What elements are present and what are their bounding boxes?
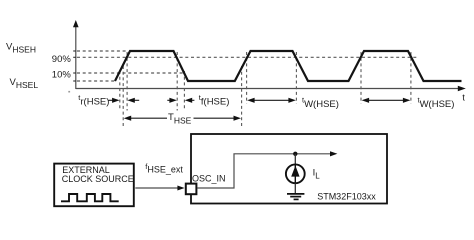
wire OSC_IN to internal node (197, 154, 332, 188)
ground (287, 194, 304, 200)
dashed level line 10% (77, 72, 185, 74)
svg-text:10%: 10% (52, 69, 72, 80)
current source IL (286, 164, 305, 183)
y-axis (voltage axis) (73, 20, 79, 89)
tr(HSE) annotation arrows (109, 98, 140, 103)
tf(HSE) annotation arrows (167, 98, 194, 103)
x-axis (time axis) (76, 86, 466, 92)
tW(HSE) annotation arrows pulse 2 (247, 98, 296, 103)
dashed marker rise1 midpoint (THSE start) (122, 66, 124, 127)
dashed level line 90% (77, 56, 417, 58)
dashed marker rise3 90% crossing (tW start) (360, 52, 362, 104)
internal wire arrowhead (330, 151, 337, 156)
THSE period annotation arrow (124, 116, 241, 121)
dashed marker rise2 90% crossing (tW start) (246, 52, 248, 104)
wire node to current source (294, 154, 296, 165)
y-axis tick VHSEL level (73, 80, 76, 82)
dashed marker rise1 10% crossing (119, 71, 121, 111)
OSC_IN pin square (186, 184, 197, 195)
dashed marker rise2 midpoint (THSE end) (241, 66, 243, 127)
dashed marker fall1 90% crossing (176, 52, 178, 111)
svg-text:90%: 90% (52, 54, 72, 65)
y-axis tick 10% level (73, 72, 76, 74)
HSE clock waveform (115, 51, 462, 81)
external clock source box (54, 164, 134, 207)
y-axis tick VHSEH level (73, 50, 76, 52)
square wave icon (61, 194, 119, 201)
dashed level line VHSEL (77, 80, 116, 82)
dashed marker rise1 90% crossing (126, 52, 128, 111)
svg-text:t: t (462, 93, 465, 104)
svg-text:STM32F103xx: STM32F103xx (317, 191, 376, 201)
svg-text:fHSE_ext: fHSE_ext (145, 162, 183, 174)
tW(HSE) annotation arrows pulse 3 (362, 98, 411, 103)
origin mark (68, 91, 70, 93)
dashed marker fall2 90% crossing (tW end) (295, 52, 297, 104)
svg-text:OSC_IN: OSC_IN (192, 174, 226, 184)
y-axis tick 90% level (73, 56, 76, 58)
STM32F103xx box (191, 134, 387, 204)
dashed marker fall3 90% crossing (tW end) (410, 52, 412, 104)
svg-text:CLOCK SOURCE: CLOCK SOURCE (62, 174, 134, 184)
wire clock source to OSC_IN with arrow (135, 186, 184, 191)
junction node (293, 152, 297, 156)
dashed level line VHSEH (77, 50, 128, 52)
wire current source to ground (294, 183, 296, 193)
dashed marker fall1 10% crossing (183, 71, 185, 111)
